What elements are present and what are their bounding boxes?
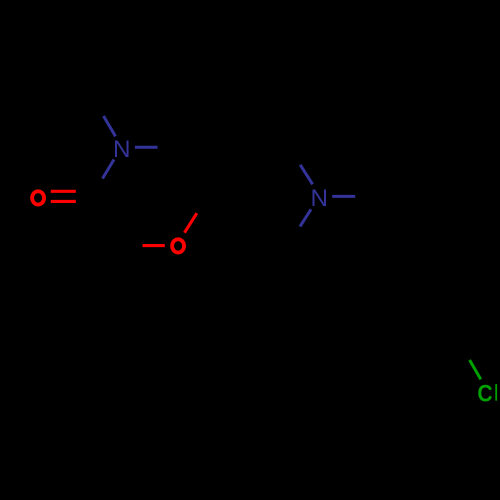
- node Cl: letter l (chlorine label): [495, 384, 497, 401]
- node N1 (morpholinone nitrogen label): [113, 136, 131, 163]
- wire: aryl C to Cl (half-bond, Cl side): [470, 360, 481, 379]
- wire: N2 to ring CH2 upper-left (half-bond, N side): [300, 165, 312, 185]
- wire: N1 to ring CH2 right (half-bond, N side): [135, 146, 158, 149]
- wire: ring O2 to CH2 left (half-bond, O side): [143, 244, 165, 247]
- wire: C=O double bond lower line (half, O side): [51, 200, 76, 203]
- node O1 (carbonyl oxygen label, drawn as ring): [32, 191, 44, 204]
- wire: N1 to carbonyl C (half-bond, N side): [103, 160, 115, 179]
- node Cl: letter C (chlorine label): [477, 380, 492, 407]
- wire: N1 to methyl carbon (half-bond, N side): [104, 116, 116, 136]
- wire: C=O double bond upper line (half, O side): [51, 190, 76, 193]
- wire: N2 to benzyl CH2 right (half-bond, N side): [332, 195, 355, 198]
- wire: N2 to ring CH2 lower-left (half-bond, N side): [300, 209, 311, 226]
- wire: ring O2 to spiro C upper-right (half-bond, O side): [185, 213, 197, 233]
- svg-text:N: N: [113, 136, 131, 163]
- svg-text:C: C: [477, 380, 492, 407]
- svg-text:N: N: [311, 185, 329, 212]
- node O2 (ring oxygen label, drawn as ring): [172, 239, 184, 252]
- node N2 (piperidine nitrogen label): [311, 185, 329, 212]
